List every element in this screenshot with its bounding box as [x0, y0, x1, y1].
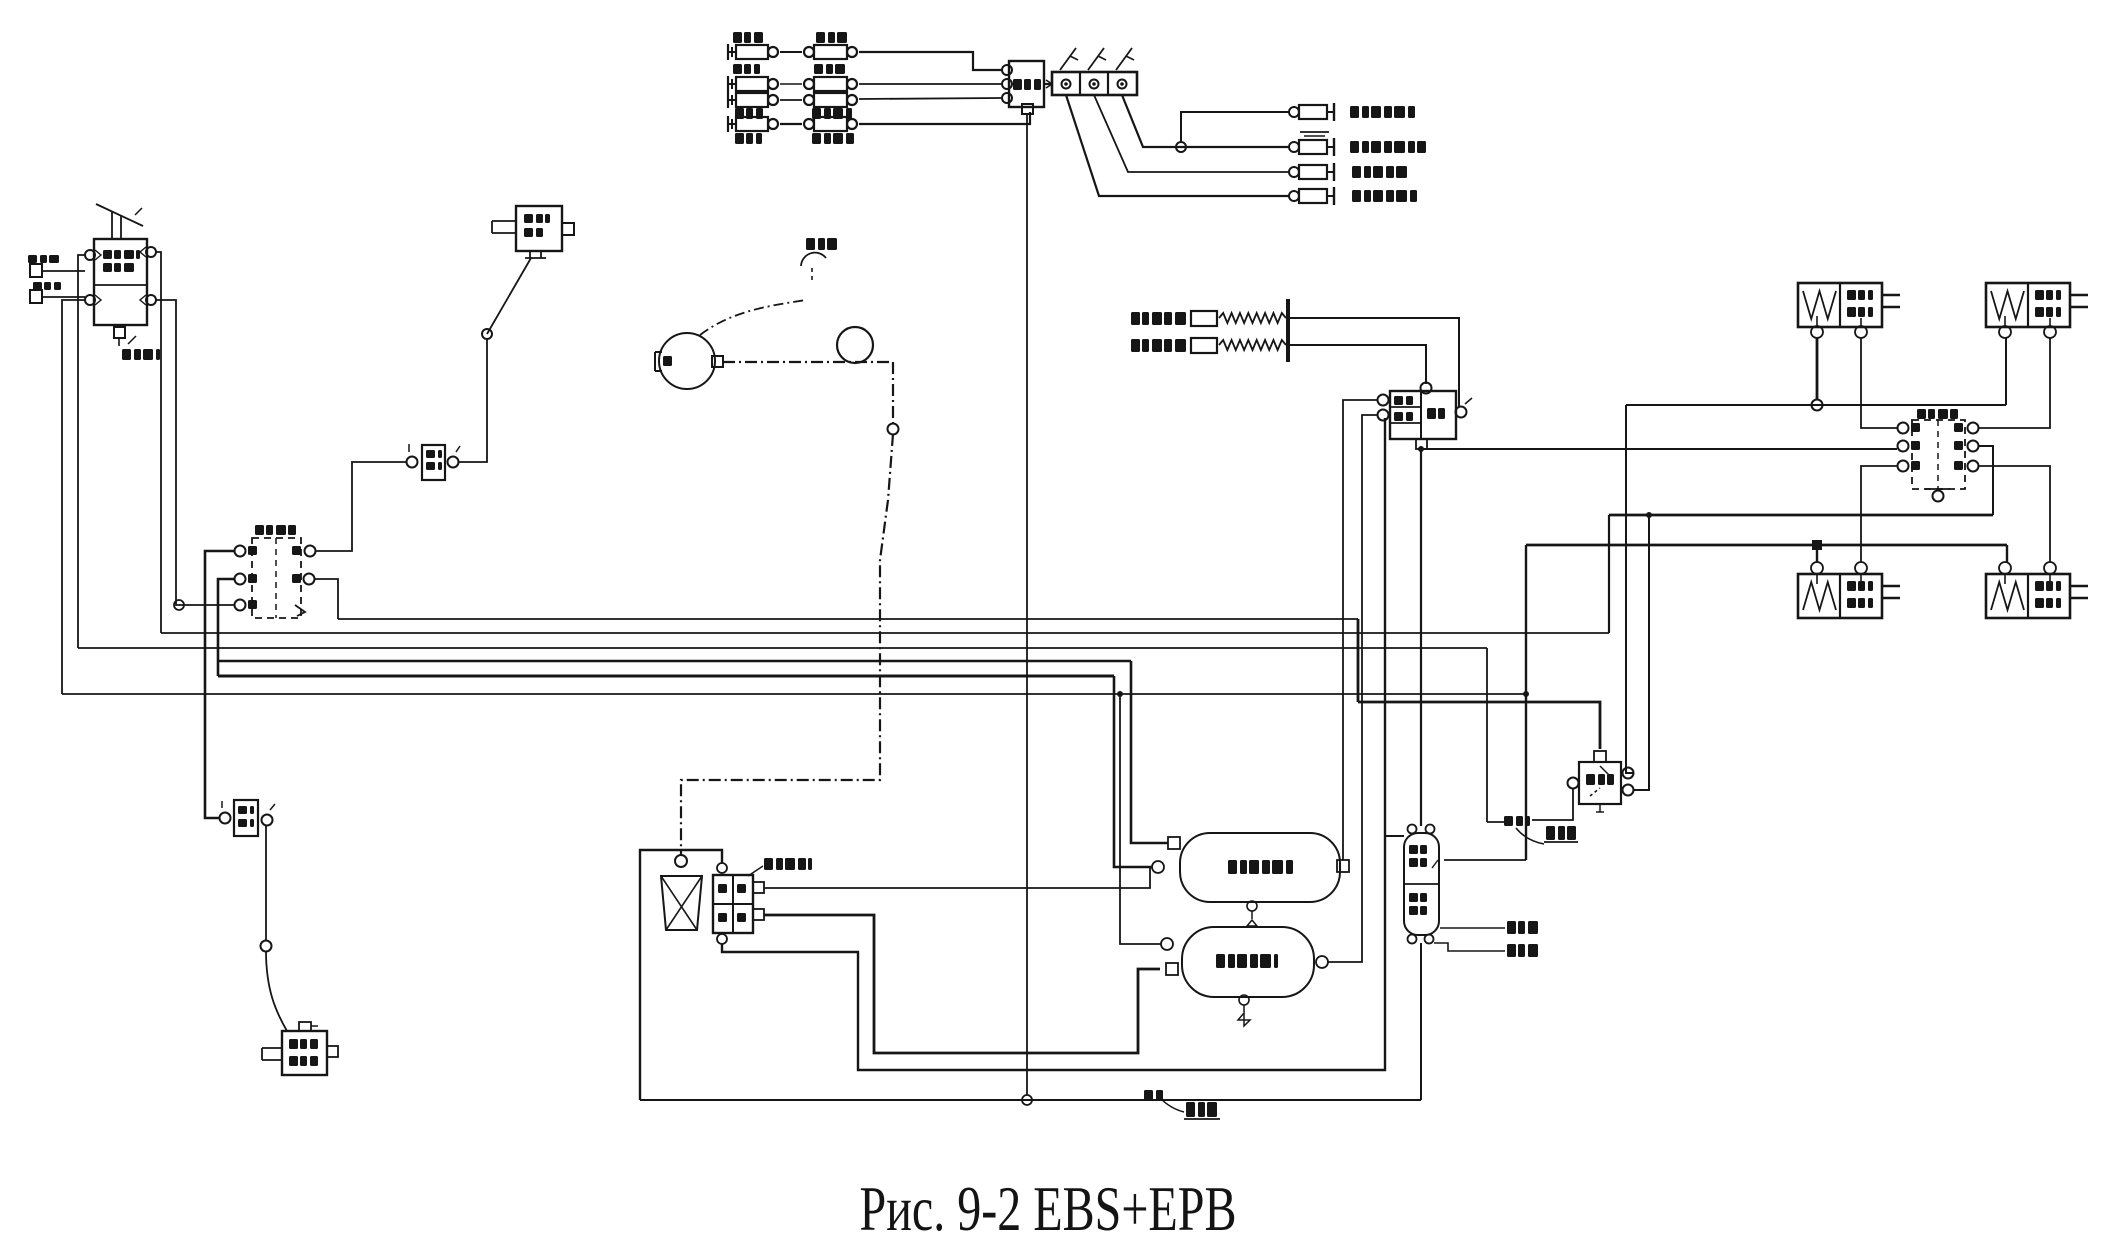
sensor S7 cylinder	[727, 116, 729, 132]
switch lever SW2	[1088, 48, 1104, 70]
label S6	[812, 108, 821, 119]
pressure switch PS1	[1131, 312, 1140, 325]
wire M2 left-bottom to RL port2	[1861, 466, 1897, 562]
label foot valve	[748, 866, 763, 876]
wire V6 left2 down	[1328, 415, 1377, 962]
wire M2 right-bottom to RR port2	[1979, 466, 2050, 562]
wire N10 to RL port1	[1816, 550, 1818, 562]
label M2	[1917, 409, 1926, 419]
label P4	[1352, 190, 1361, 202]
sensor S6 cylinder	[804, 95, 814, 105]
FR port2	[2044, 326, 2056, 338]
label S8	[812, 133, 821, 144]
ECU pin port left-bottom	[85, 295, 95, 305]
T1 right port	[1337, 860, 1349, 872]
ECU pin port left-top	[85, 250, 95, 260]
EPB hand valve V7	[1579, 762, 1621, 804]
node N12	[1523, 691, 1529, 697]
label P1	[1350, 106, 1359, 118]
air tank T1 40L	[1180, 833, 1340, 902]
front axle ABS module M1	[252, 538, 301, 618]
wire FL port2 to M2 left-top	[1861, 338, 1897, 428]
wire ECU left-top to bus B3	[78, 255, 85, 648]
air dryer box B7	[282, 1031, 327, 1075]
wire PS1 to 4CV right port	[1290, 318, 1459, 406]
rear axle modulator M2	[1912, 420, 1965, 489]
RL port1	[1811, 562, 1823, 574]
node N7	[1117, 691, 1123, 697]
air tank T2 50L	[1182, 927, 1314, 997]
T2 right circle port	[1316, 956, 1328, 968]
V8 top ports	[1408, 825, 1417, 834]
riser bus B2 to service line	[1608, 515, 1610, 633]
label trailer	[1546, 826, 1555, 840]
wire V6 bottom to EPB hand valve circuit	[1420, 449, 1422, 826]
wire N6 to air dryer box	[266, 951, 287, 1031]
plug P2	[1289, 142, 1299, 152]
wire S4 to connector box pin2	[859, 83, 1001, 85]
brake chamber RL	[1798, 574, 1882, 618]
wire SW1 to plug row4	[1066, 95, 1289, 196]
ECU antenna	[96, 204, 143, 226]
label S1	[733, 32, 742, 43]
wire ECU right-top to bus B2	[156, 252, 161, 633]
wire V5 down	[265, 826, 267, 941]
label S4	[814, 64, 823, 74]
drive line dash-dot	[723, 361, 893, 363]
wire S7-S8	[780, 123, 802, 125]
switch box SW1-3	[1052, 72, 1137, 95]
wire bus B6 to T2 circle	[1120, 694, 1161, 944]
wire bus B4 to T1 square	[1131, 661, 1168, 843]
rear chamber supply line	[1526, 544, 2007, 547]
node N6	[261, 941, 272, 952]
node N11	[1646, 512, 1652, 518]
label ECU bottom port	[122, 349, 131, 360]
RL port2	[1855, 562, 1867, 574]
ECU bottom port	[114, 327, 125, 338]
M1 port left-bottom	[235, 600, 246, 611]
label test plug	[1186, 1102, 1195, 1117]
wire M1 right-mid to bus B1	[315, 579, 338, 619]
M1 exhaust	[295, 605, 305, 616]
foot brake valve pedal	[675, 855, 687, 867]
M2 exhaust port	[1933, 491, 1944, 502]
riser bus B3 to trailer plug	[1486, 648, 1488, 822]
wire N2 down to valve V3	[458, 339, 487, 462]
governor arc symbol	[801, 253, 826, 266]
wire S3-S4	[780, 83, 802, 85]
label test B	[1507, 944, 1516, 957]
wire ECU right-bottom to M1 left-bottom	[156, 300, 234, 605]
plug P4	[1289, 191, 1299, 201]
bus B3	[78, 647, 1487, 649]
wire M1 left-mid to bus risers	[218, 579, 234, 676]
EPB relay valve V8	[1404, 833, 1439, 935]
ECU U1 parking control unit	[94, 239, 147, 325]
plug P1	[1289, 107, 1299, 117]
M2 port right-bottom	[1968, 461, 1979, 472]
node N10	[1812, 540, 1822, 550]
valve V3	[422, 445, 445, 480]
connector box J1	[1009, 61, 1044, 107]
label S3	[733, 64, 742, 74]
hand valve top line	[1358, 702, 1600, 749]
wire S6 to connector box pin3	[859, 98, 1001, 99]
sensor S5 cylinder	[727, 92, 729, 108]
T1 left circle port	[1152, 861, 1164, 873]
wire service line to M2 right-mid	[1979, 446, 1993, 515]
label S7	[735, 133, 744, 144]
riser from connector box J1	[1026, 114, 1028, 1095]
label CN1	[28, 255, 37, 263]
engine clutch coil	[837, 327, 873, 363]
drive line curve to governor	[700, 300, 806, 335]
ECU pin port right-top	[146, 247, 156, 257]
node N8	[1418, 446, 1424, 452]
M1 port left-mid	[235, 574, 246, 585]
bus B6	[62, 693, 1526, 695]
riser bus B1 to hand valve top line	[1357, 619, 1360, 702]
drain line bottom	[640, 1099, 1421, 1101]
bus B4 rear service	[218, 660, 1131, 663]
drive line to foot valve	[681, 434, 893, 855]
V6 port right	[1456, 407, 1467, 418]
wire foot valve bottom to 4CV	[722, 418, 1385, 1070]
switch lever SW1	[1060, 48, 1076, 70]
T1 left square port	[1168, 837, 1180, 849]
V7 top port	[1594, 751, 1606, 762]
label test A	[1507, 921, 1516, 934]
T1 drain	[1247, 901, 1257, 911]
M1 port right-mid	[304, 574, 315, 585]
plug CN1 to ECU	[30, 264, 42, 277]
T2 drain	[1239, 995, 1249, 1005]
ECU pin port right-bottom	[146, 295, 156, 305]
M2 port right-mid	[1968, 441, 1979, 452]
FL port2	[1855, 326, 1867, 338]
V7 right-top port	[1623, 768, 1634, 779]
node N1 junction	[1176, 142, 1186, 152]
wire FL port1 down to supply line	[1816, 338, 1819, 400]
front chamber supply line	[1626, 404, 2006, 406]
wire foot valve port22	[764, 915, 1160, 1053]
sensor S1 cylinder	[727, 44, 729, 60]
wire V6 left1 to T1 right	[1343, 400, 1377, 860]
M2 port left-bottom	[1898, 461, 1909, 472]
bus B5	[218, 675, 1114, 678]
node N5	[1022, 1095, 1032, 1105]
wire PS2 to 4CV top port	[1290, 345, 1426, 384]
pressure switch PS2	[1131, 339, 1140, 352]
label P2	[1350, 141, 1359, 153]
brake chamber FL	[1798, 283, 1882, 327]
V6 port left2	[1378, 410, 1389, 421]
wire supply to rear modulator left-mid	[1421, 448, 1897, 450]
trailer label pointer	[1516, 828, 1544, 844]
wire V8 test port B	[1434, 943, 1505, 951]
label governor	[806, 238, 815, 250]
M2 port left-top	[1898, 423, 1909, 434]
switch lever SW3	[1116, 48, 1132, 70]
V6 port left1	[1378, 395, 1389, 406]
wire V8 test port A	[1440, 927, 1505, 929]
wire foot valve top to drain line	[640, 850, 722, 1100]
sensor S4 cylinder	[804, 79, 814, 89]
FL port1	[1811, 326, 1823, 338]
node N9	[1812, 400, 1823, 411]
wire to EPB valve right port	[1444, 859, 1526, 861]
bus B1	[338, 618, 1358, 620]
svg-text:Рис. 9-2 EBS+EPB: Рис. 9-2 EBS+EPB	[860, 1173, 1237, 1244]
park valve V5	[234, 800, 258, 836]
plug CN2 to ECU	[30, 290, 42, 303]
wire V2 to node N2	[487, 258, 531, 334]
wire foot valve port21 to tank1 line	[764, 867, 1150, 888]
RR port2	[2044, 562, 2056, 574]
wire to RR port1	[2006, 545, 2008, 562]
wire S2 to connector box pin1	[859, 52, 1001, 70]
riser rear supply	[1525, 545, 1527, 860]
wire M1 left-top to park valve	[205, 551, 234, 818]
M2 port left-mid	[1898, 441, 1909, 452]
sensor S2 cylinder	[804, 47, 814, 57]
wire M2 right-top to FR port2	[1979, 338, 2050, 428]
wire bus B5 to T1 circle	[1114, 676, 1152, 867]
four circuit protection valve V6	[1390, 391, 1456, 439]
wire branch to EPB valve top	[1385, 835, 1404, 837]
V8 bottom ports	[1408, 935, 1417, 944]
RR port1	[1999, 562, 2011, 574]
wire S5-S6	[780, 99, 802, 101]
V7 bottom tick	[1599, 804, 1601, 812]
sensor S3 cylinder	[727, 76, 729, 92]
T2 left square port	[1166, 963, 1178, 975]
V7 left port	[1568, 778, 1579, 789]
V6 port top	[1421, 383, 1432, 394]
air compressor CMP	[659, 333, 715, 389]
wire S1-S2	[780, 51, 802, 53]
wire SW2 to plug row3	[1094, 95, 1289, 172]
foot brake valve body V4	[713, 875, 753, 933]
link J1 to switch box	[1044, 83, 1052, 85]
node N4	[888, 424, 899, 435]
wire V3 to front module right-top	[315, 462, 406, 551]
FR port1	[1999, 326, 2011, 338]
label CN2	[33, 282, 42, 290]
M1 port left-top	[235, 546, 246, 557]
wire N1 up to plug row1	[1181, 112, 1289, 142]
wire supply to FR port1	[2005, 338, 2007, 405]
wire service branch to hand valve right-bottom	[1634, 515, 1649, 790]
service line	[1609, 514, 1993, 517]
wire V7 left to trailer line	[1532, 789, 1573, 820]
label S5	[735, 108, 744, 119]
drive line vertical	[892, 362, 894, 424]
wire front supply to hand valve right-top	[1626, 405, 1634, 773]
V7 right-bottom port	[1623, 785, 1634, 796]
M1 port right-top	[305, 546, 316, 557]
bus B2	[161, 632, 1609, 634]
node N2	[482, 329, 492, 339]
wire V8 bottom to drain line	[1420, 943, 1422, 1100]
wire S8 to connector box bottom	[859, 112, 1030, 124]
label M1	[255, 525, 264, 535]
test plug on drain line	[1144, 1090, 1153, 1101]
wire ECU left-bottom to bus B6	[62, 300, 85, 694]
label S2	[816, 32, 825, 43]
label P3	[1352, 166, 1361, 178]
M2 port right-top	[1968, 423, 1979, 434]
anchor bar	[1286, 299, 1290, 362]
plug P3	[1289, 167, 1299, 177]
brake chamber RR	[1986, 574, 2070, 618]
wire SW3 to plug row2	[1122, 95, 1289, 147]
V6 port bottom	[1416, 439, 1427, 449]
node N3	[174, 600, 184, 610]
trailer plug	[1504, 816, 1513, 826]
T2 left circle port	[1161, 938, 1173, 950]
brake chamber FR	[1986, 283, 2070, 327]
valve V2 small box	[516, 206, 562, 251]
sensor S8 cylinder	[804, 119, 814, 129]
